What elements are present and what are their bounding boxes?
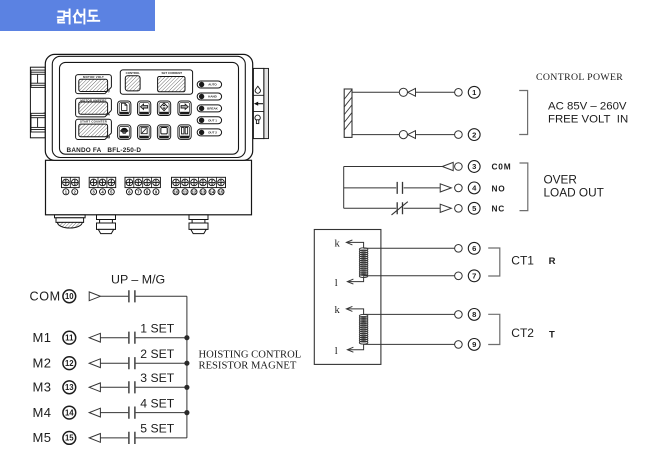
right mounting bracket plate xyxy=(253,68,263,138)
svg-text:12: 12 xyxy=(192,189,197,194)
terminal number 14 xyxy=(209,189,215,195)
terminal number 9 xyxy=(153,189,159,195)
display 2 frame xyxy=(76,98,113,117)
left bracket hook xyxy=(36,113,45,115)
svg-text:MOTOR VOLT: MOTOR VOLT xyxy=(83,75,104,79)
button SHIFT xyxy=(138,101,151,116)
svg-text:COM: COM xyxy=(30,290,61,304)
terminal pin circle 4 xyxy=(455,184,463,192)
svg-text:AC 85V – 260V: AC 85V – 260V xyxy=(548,101,627,113)
status lamp BREAK xyxy=(197,105,221,112)
terminal number 8 xyxy=(144,189,150,195)
title bar (blue) xyxy=(0,0,155,31)
contact M2 xyxy=(129,357,135,369)
terminal box body xyxy=(46,160,252,215)
terminal number 5 xyxy=(108,189,114,195)
terminal number 2 xyxy=(468,129,480,141)
plug arrow L1 xyxy=(408,88,416,96)
svg-text:HOISTING CONTROL: HOISTING CONTROL xyxy=(199,350,302,361)
svg-text:k: k xyxy=(335,305,341,316)
contact M3 xyxy=(129,381,135,393)
CT box xyxy=(314,230,381,365)
svg-text:CT1: CT1 xyxy=(511,254,534,268)
left bracket clamp bottom xyxy=(31,113,45,132)
svg-text:12: 12 xyxy=(65,359,74,368)
control / set-current display group frame xyxy=(120,70,192,94)
arrow NO xyxy=(440,184,451,192)
right bracket keyhole up xyxy=(255,86,260,93)
terminal group 10-15 xyxy=(172,177,226,187)
wire M4 row xyxy=(89,408,100,417)
relay case bevel line xyxy=(52,56,245,157)
CT2 k lead xyxy=(347,309,364,315)
right bracket divider lines xyxy=(253,95,263,111)
svg-text:FREE VOLT IN: FREE VOLT IN xyxy=(548,114,628,126)
button TEST xyxy=(118,125,131,139)
terminal pin circle 5 xyxy=(455,205,463,213)
terminal number 3 xyxy=(91,189,97,195)
terminal pin circle 6 xyxy=(455,245,463,253)
bracket overload xyxy=(520,163,528,211)
svg-text:R: R xyxy=(549,256,556,267)
bracket CT1 xyxy=(488,248,500,276)
svg-text:SET CURRENT: SET CURRENT xyxy=(162,71,183,75)
svg-text:l: l xyxy=(335,278,338,289)
bracket CT2 xyxy=(488,314,500,344)
contact NC (normally closed) xyxy=(397,202,402,214)
svg-text:RESET: RESET xyxy=(141,137,148,139)
svg-text:13: 13 xyxy=(65,383,74,392)
svg-text:2: 2 xyxy=(472,130,476,139)
right mounting bracket back plate xyxy=(264,68,269,138)
terminal screw 9 xyxy=(153,179,160,186)
svg-text:l: l xyxy=(335,346,338,357)
magnet bus wire xyxy=(186,296,188,438)
wire M2 row xyxy=(89,359,100,368)
terminal number 5 xyxy=(468,202,480,214)
contact NO xyxy=(397,182,402,194)
left bracket clamp top xyxy=(31,70,45,87)
svg-text:TEST: TEST xyxy=(122,137,128,139)
wire COM row xyxy=(89,292,100,301)
wire to terminal 8 xyxy=(364,313,455,315)
display 1 frame xyxy=(76,75,113,95)
terminal screw 14 xyxy=(209,179,216,186)
wire to terminal 2 xyxy=(416,134,455,136)
title text 결선도 (hand-drawn hangul strokes) xyxy=(58,10,99,24)
svg-text:MOTOR AMPERE: MOTOR AMPERE xyxy=(80,99,106,103)
status lamp OUT 1 xyxy=(197,117,221,124)
terminal number 7 xyxy=(135,189,141,195)
svg-text:8: 8 xyxy=(472,310,476,319)
svg-text:BREAK: BREAK xyxy=(207,107,219,111)
plug arrow L2 xyxy=(408,131,416,139)
wire M1 row xyxy=(89,333,100,342)
terminal number 15 xyxy=(218,189,224,195)
terminal group 1-2 xyxy=(62,177,80,187)
svg-text:SHIFT: SHIFT xyxy=(141,113,148,115)
svg-text:15: 15 xyxy=(219,189,224,194)
terminal number 12 xyxy=(191,189,197,195)
svg-text:3: 3 xyxy=(472,162,476,171)
button LEFT xyxy=(178,101,191,116)
terminal screw 7 xyxy=(135,179,142,186)
terminal number 7 xyxy=(468,270,480,282)
svg-text:M5: M5 xyxy=(33,430,52,445)
svg-text:10: 10 xyxy=(65,292,74,301)
svg-text:M4: M4 xyxy=(33,405,52,420)
terminal number 13 xyxy=(200,189,206,195)
wire NO (4) xyxy=(344,187,397,189)
button HAND xyxy=(178,125,191,139)
svg-text:HAND: HAND xyxy=(182,136,188,139)
svg-text:UP/DOWN: UP/DOWN xyxy=(159,113,169,115)
status lamp OUT 2 xyxy=(197,129,221,136)
terminal number 11 xyxy=(182,189,188,195)
wire M3 row xyxy=(89,383,100,392)
svg-text:15: 15 xyxy=(65,434,74,443)
CT1 k lead xyxy=(347,242,364,248)
svg-text:OVER: OVER xyxy=(544,173,577,187)
cable gland dome xyxy=(55,215,86,228)
button RESET xyxy=(138,125,151,139)
terminal number 1 xyxy=(63,189,69,195)
terminal number 11 xyxy=(63,331,76,344)
terminal screw 3 xyxy=(90,179,97,186)
svg-text:9: 9 xyxy=(472,340,476,349)
wire to terminal 7 xyxy=(364,275,455,277)
terminal screw 4 xyxy=(99,179,106,186)
terminal screw 5 xyxy=(108,179,115,186)
relay front panel xyxy=(60,62,239,154)
CT1 l lead xyxy=(348,276,364,281)
right bracket arrow xyxy=(258,103,264,105)
svg-text:11: 11 xyxy=(65,334,74,343)
button DATA xyxy=(118,101,131,116)
relay main case outer xyxy=(45,54,252,160)
plug contact circle L1 xyxy=(399,88,407,96)
CT2 l lead xyxy=(348,344,364,349)
contact M1 xyxy=(129,332,135,344)
svg-text:10: 10 xyxy=(174,189,179,194)
terminal pin circle 8 xyxy=(455,311,463,319)
svg-text:DATA: DATA xyxy=(122,112,128,115)
terminal screw 15 xyxy=(218,179,225,186)
button AUTO xyxy=(157,125,170,139)
svg-text:11: 11 xyxy=(183,189,188,194)
terminal number 6 xyxy=(126,189,132,195)
terminal screw 1 xyxy=(63,179,70,186)
svg-text:LOAD OUT: LOAD OUT xyxy=(544,186,604,200)
contact M5 xyxy=(129,432,135,444)
svg-text:2 SET: 2 SET xyxy=(140,347,174,361)
terminal number 3 xyxy=(468,161,480,173)
set current display xyxy=(158,77,185,92)
terminal number 13 xyxy=(63,381,76,394)
svg-text:NC: NC xyxy=(492,204,506,214)
svg-text:3 SET: 3 SET xyxy=(140,371,174,385)
terminal number 4 xyxy=(468,182,480,194)
svg-text:6: 6 xyxy=(472,244,476,253)
terminal screw 6 xyxy=(126,179,133,186)
svg-text:5 SET: 5 SET xyxy=(140,422,174,436)
contact COM xyxy=(129,290,135,302)
svg-text:M2: M2 xyxy=(33,355,52,370)
terminal number 10 xyxy=(173,189,179,195)
terminal number 10 xyxy=(63,290,76,303)
terminal screw 12 xyxy=(191,179,198,186)
terminal screw 13 xyxy=(200,179,207,186)
terminal screw 2 xyxy=(71,179,78,186)
right bracket keyhole down xyxy=(255,115,260,120)
terminal pin circle 7 xyxy=(455,272,463,280)
terminal screw 8 xyxy=(144,179,151,186)
junction node M4 xyxy=(184,410,189,415)
svg-text:AUTO: AUTO xyxy=(161,136,167,139)
wire COM (3) xyxy=(344,166,443,168)
svg-text:T: T xyxy=(549,329,555,340)
svg-text:HAND: HAND xyxy=(208,95,217,99)
svg-text:BANDO FA BFL-250-D: BANDO FA BFL-250-D xyxy=(67,147,142,154)
wire to terminal 1 xyxy=(416,91,455,93)
svg-text:AUTO: AUTO xyxy=(208,83,217,87)
svg-text:OUT 1: OUT 1 xyxy=(208,119,217,123)
svg-text:4 SET: 4 SET xyxy=(140,396,174,410)
terminal pin circle 9 xyxy=(455,341,463,349)
junction node M2 xyxy=(184,361,189,366)
svg-text:UP – M/G: UP – M/G xyxy=(111,272,165,286)
CT coil 1 xyxy=(359,248,368,278)
terminal number 6 xyxy=(468,242,480,254)
svg-text:NO: NO xyxy=(492,183,506,193)
arrow COM xyxy=(442,162,453,170)
terminal pin circle 3 xyxy=(455,163,463,171)
terminal group 3-5 xyxy=(89,177,116,187)
control display xyxy=(125,76,140,91)
wire M5 row xyxy=(89,434,100,443)
svg-text:OUT 2: OUT 2 xyxy=(208,131,217,135)
terminal group 6-9 xyxy=(125,177,160,187)
terminal number 4 xyxy=(100,189,106,195)
wire to terminal 6 xyxy=(364,247,455,249)
cable connector 1 xyxy=(97,215,116,234)
svg-text:C0M: C0M xyxy=(492,161,512,171)
button UP/DOWN xyxy=(157,101,170,116)
svg-text:M1: M1 xyxy=(33,330,52,345)
bracket control power xyxy=(519,91,527,135)
wire NC (5) xyxy=(344,207,397,209)
display 3 frame xyxy=(76,119,113,140)
terminal pin circle 2 xyxy=(455,131,463,139)
terminal pin circle 1 xyxy=(455,89,463,97)
junction node M3 xyxy=(184,385,189,390)
svg-text:CONTROL: CONTROL xyxy=(126,71,141,75)
svg-text:LEFT: LEFT xyxy=(182,113,188,115)
arrow NC xyxy=(440,204,451,212)
svg-text:14: 14 xyxy=(210,189,215,194)
terminal number 15 xyxy=(63,432,76,445)
terminal number 14 xyxy=(63,406,76,419)
overload left bus wire xyxy=(343,167,345,209)
svg-text:M: M xyxy=(107,135,110,139)
terminal screw 10 xyxy=(173,179,180,186)
terminal number 8 xyxy=(468,309,480,321)
svg-text:CONTROL POWER: CONTROL POWER xyxy=(536,72,623,83)
terminal number 1 xyxy=(468,86,480,98)
terminal screw 11 xyxy=(182,179,189,186)
contact M4 xyxy=(129,407,135,419)
AC input bus bar (hatched) xyxy=(344,89,352,137)
status lamp AUTO xyxy=(197,81,221,88)
terminal number 9 xyxy=(468,339,480,351)
CT coil 2 xyxy=(359,314,368,344)
junction node M1 xyxy=(184,335,189,340)
cable connector 2 xyxy=(189,215,208,234)
wire L1 xyxy=(352,91,399,93)
svg-text:M3: M3 xyxy=(33,380,52,395)
svg-text:1 SET: 1 SET xyxy=(140,321,174,335)
wire L2 xyxy=(352,134,399,136)
right bracket tick marks xyxy=(251,90,253,117)
terminal number 12 xyxy=(63,357,76,370)
svg-text:7: 7 xyxy=(472,272,476,281)
svg-text:START COUNTER: START COUNTER xyxy=(80,120,108,124)
terminal number 2 xyxy=(72,189,78,195)
status lamp HAND xyxy=(197,93,221,100)
svg-text:RESISTOR MAGNET: RESISTOR MAGNET xyxy=(199,360,297,371)
svg-text:13: 13 xyxy=(201,189,206,194)
left mounting bracket plate xyxy=(30,67,45,138)
svg-text:CT2: CT2 xyxy=(511,326,534,340)
svg-text:14: 14 xyxy=(65,408,74,417)
svg-text:k: k xyxy=(335,238,341,249)
plug contact circle L2 xyxy=(399,131,407,139)
wire to terminal 9 xyxy=(364,343,455,345)
